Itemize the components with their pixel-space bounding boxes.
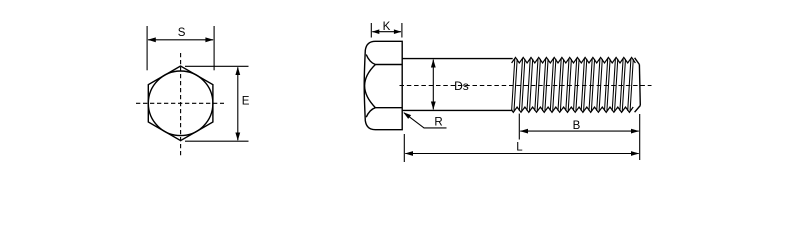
svg-text:L: L: [516, 141, 523, 153]
dimension S: left extension line: [146, 26, 148, 70]
side view: head lower facet line: [375, 107, 402, 109]
svg-text:R: R: [434, 117, 442, 129]
dimension L: dimension line with arrowheads: [405, 153, 638, 155]
dimension E: dimension line with arrowheads: [237, 67, 239, 140]
dimension B: right extension line (thread tip): [639, 114, 641, 160]
front view: inscribed circle (head chamfer circle): [148, 71, 213, 136]
svg-text:S: S: [178, 27, 186, 39]
svg-text:K: K: [383, 21, 391, 33]
dimension B: left extension line: [518, 114, 520, 140]
svg-text:B: B: [573, 120, 581, 132]
side view: head chamfer arc upper facet: [366, 55, 375, 65]
side view: head chamfer arc lower facet: [366, 108, 375, 118]
side view: head chamfer arc middle facet: [365, 65, 376, 108]
side view: threaded section: [512, 57, 636, 63]
side view: tip end face: [638, 65, 641, 106]
dimension K: right extension line: [401, 23, 403, 38]
dimension Ds: vertical arrow across shank: [432, 60, 434, 110]
side view: shank bottom edge: [402, 109, 513, 111]
dimension R: leader arrow to head fillet: [404, 113, 447, 128]
dimension E: bottom extension line: [185, 140, 249, 142]
side view: shank top edge: [402, 58, 513, 60]
svg-text:Ds: Ds: [454, 79, 469, 93]
dimension L: left extension line: [403, 134, 405, 162]
front view: vertical centerline: [180, 53, 182, 156]
side view: tip chamfer top: [635, 58, 640, 65]
dimension S: dimension line with arrowheads: [148, 39, 213, 41]
dimension E: top extension line: [185, 65, 249, 67]
dimension B: dimension line with arrowheads: [520, 130, 638, 132]
side view: bolt centerline: [400, 85, 652, 87]
dimension K: dimension line with arrowheads: [372, 31, 401, 33]
front view: hex head outline: [148, 66, 213, 141]
dimension S: right extension line: [213, 26, 215, 70]
side view: bolt head outline: [364, 41, 402, 129]
svg-text:E: E: [242, 96, 250, 108]
side view: head upper facet line: [375, 64, 402, 66]
front view: horizontal centerline: [136, 102, 224, 104]
side view: tip chamfer bottom: [635, 106, 641, 113]
dimension K: left extension line: [370, 23, 372, 38]
